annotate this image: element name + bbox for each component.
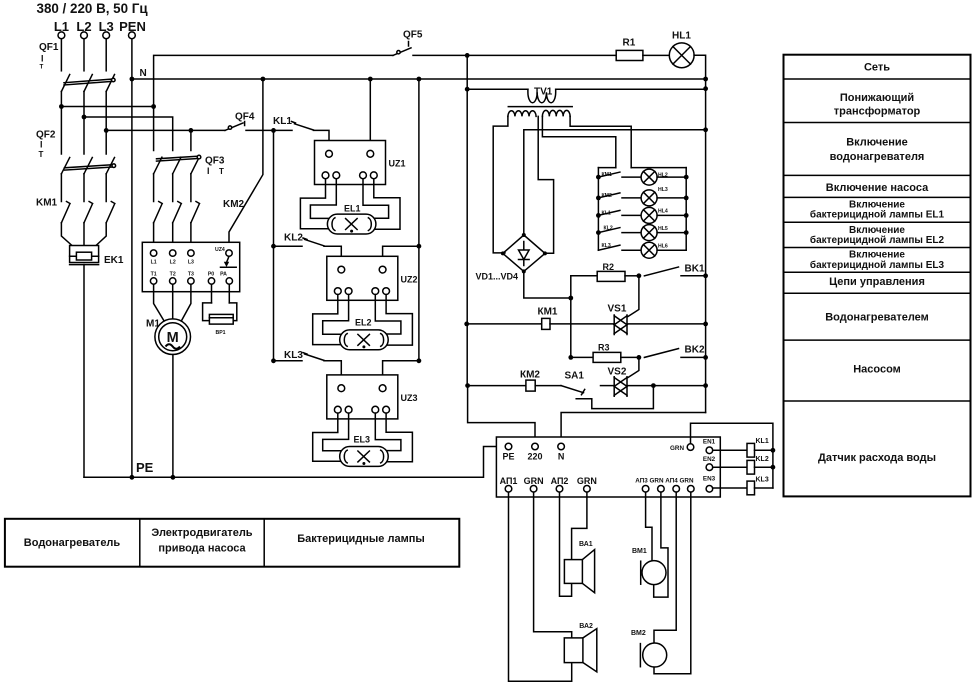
svg-text:KL1: KL1 [273,116,292,127]
wire R2 to VS1 gate [628,276,639,317]
junction KM2 row right [703,383,708,388]
wire P0 to BP1 [211,284,213,303]
junction KL2 row left [271,244,276,249]
contactor KM1 main contacts [36,198,115,223]
junction KL3 row left [271,358,276,363]
terminal box of pump unit [142,242,239,291]
bottom terminals АП3 GRN АП4 GRN [635,478,694,493]
wire UZ1 pin1 loop [300,179,329,229]
wire UZ1 right to N [369,79,371,150]
resistor R1 [616,37,643,60]
microphone BM2 [631,630,667,667]
svg-text:QF5: QF5 [403,30,423,41]
ballast UZ2 [327,256,418,300]
svg-text:KM2: KM2 [223,199,245,210]
svg-text:Т3: Т3 [188,272,194,278]
wire UZ3 right up and to bus [383,361,419,385]
terminal EN3 [703,475,716,492]
wire UZ2 pin4 loop [386,295,412,346]
terminal L1 [54,19,69,39]
svg-text:Включение: Включение [846,137,908,149]
wire T3 to motor [181,284,191,322]
junction KL3 row right [417,358,422,363]
SECTION: control box speakers [496,423,775,681]
svg-text:бактерицидной лампы EL1: бактерицидной лампы EL1 [810,209,945,221]
wire secondary left end to bridge [493,116,508,253]
wire UZ feed bus [273,130,275,360]
svg-text:EN1: EN1 [703,439,716,446]
SECTION: control rows [464,262,708,443]
ballast UZ1 [315,141,406,185]
wire QF5 to R1 [413,54,616,56]
svg-text:KL3: KL3 [284,350,303,361]
SECTION: bottom table [5,519,459,567]
svg-text:ВМ2: ВМ2 [631,630,646,637]
svg-text:KL1: KL1 [756,438,769,445]
junction KM2 row left [465,383,470,388]
wire GRN to BA1 [572,492,587,559]
wire QF1 out L2 [83,92,85,155]
terminal L3 [99,19,114,39]
ballast UZ3 [327,375,418,419]
wire bus L3 to QF4 [106,129,225,131]
svg-text:Бактерицидные лампы: Бактерицидные лампы [297,533,425,545]
terminal EN1 [703,439,716,454]
contactor coil KM1 [467,307,615,330]
svg-text:GRN: GRN [524,476,544,486]
svg-text:Т: Т [40,64,44,71]
wire EN3 to KL3 [713,487,747,489]
relay coil KL3 [747,477,769,495]
svg-text:KL2: KL2 [284,233,303,244]
breaker QF2 [36,130,116,174]
wire 220 feed [468,386,535,444]
wire KM1 to EK1 converge [61,223,72,246]
terminal L2 [76,19,91,39]
breaker QF3 [154,155,225,176]
junction KM1 row right [703,322,708,327]
svg-text:L2: L2 [170,260,176,266]
wire KL3 to GRN bus [755,487,773,489]
svg-text:QF2: QF2 [36,130,56,141]
wire PEN drop [131,39,133,478]
svg-text:Р0: Р0 [208,272,214,278]
wire bus L1 to pump branch [61,106,153,108]
wire secondary right end to lamp group [570,116,631,167]
breaker QF5 [393,30,423,56]
wire PE bus [84,447,505,478]
lamp EL1 [327,204,376,235]
wire GRN to BM1 [654,492,668,597]
svg-text:VS2: VS2 [608,367,627,378]
svg-text:Т: Т [39,150,44,159]
resistor R3 row [571,343,642,363]
sensor BP1 [203,303,237,336]
wire UZ1 pin3 loop [363,179,389,219]
svg-text:РЕ: РЕ [502,452,514,462]
svg-text:SA1: SA1 [565,371,585,382]
wire QF3 out drops [154,174,191,202]
breaker QF4 [225,112,255,131]
svg-text:N: N [140,68,147,79]
svg-text:KM1: KM1 [36,198,58,209]
svg-text:HL6: HL6 [658,244,668,250]
svg-text:Датчик расхода воды: Датчик расхода воды [818,452,936,464]
svg-text:Т: Т [219,167,224,176]
svg-text:R1: R1 [623,37,636,48]
wire L1 drop to QF1 [60,39,62,71]
terminal EN2 [703,456,716,471]
wire lamp left bus [597,168,599,251]
wire pump phase drops [154,107,191,151]
wire QF4 to KL1 [246,129,292,131]
svg-text:220: 220 [527,452,542,462]
wire UZ3 pin3 loop [375,413,401,451]
svg-text:EL3: EL3 [354,435,371,445]
switch BK1 [644,264,708,279]
wire L2 drop to QF1 [83,39,85,71]
svg-text:HL5: HL5 [658,226,668,232]
svg-text:EL2: EL2 [355,318,372,328]
svg-text:UZ3: UZ3 [401,393,418,403]
wire R1 to HL1 [643,54,669,56]
switch BK2 [644,345,708,360]
junction QF5 node [465,53,470,58]
wire left control bus [466,89,468,386]
wire QF2 out drops [61,174,106,202]
relay coil KL1 [747,438,769,457]
contactor coil KM2 [468,370,561,392]
svg-text:АП1: АП1 [500,476,518,486]
wire UZ3 pin4 loop [386,413,412,462]
svg-text:GRN: GRN [670,445,684,452]
svg-text:380 / 220 В, 50 Гц: 380 / 220 В, 50 Гц [37,1,149,16]
svg-text:R3: R3 [598,343,610,353]
wire bus L2 to pump branch [84,117,173,151]
relay contact KL1 [273,116,314,130]
svg-text:EK1: EK1 [104,255,124,266]
svg-text:GRN: GRN [577,476,597,486]
junction UZ feed bus top [271,128,276,133]
wire UZ2 pin3 loop [375,295,401,335]
svg-text:UZ2: UZ2 [401,275,418,285]
svg-text:BK1: BK1 [685,264,705,275]
svg-text:KL2: KL2 [756,456,769,463]
wire T1 to motor [154,284,165,322]
svg-text:BK2: BK2 [685,345,705,356]
relay coil KL2 [747,456,769,474]
svg-text:Электродвигатель: Электродвигатель [151,527,252,539]
svg-text:KL3: KL3 [756,477,769,484]
wire KL3 to UZ3 [324,361,341,385]
wire UZ2 pin2 loop [323,295,349,335]
wire lamp right bus [685,168,687,251]
wire KL1 to GRN bus [755,449,773,451]
indicator lamp group frame [598,167,686,169]
row KM2/HL3 [596,187,689,206]
svg-text:Т1: Т1 [151,272,157,278]
svg-text:привода насоса: привода насоса [158,543,246,555]
wire L3 drop to QF1 [105,39,107,71]
svg-text:Понижающий: Понижающий [840,92,914,104]
junction right bus TV1 [703,86,708,91]
svg-text:EL1: EL1 [344,204,361,214]
svg-text:Водонагреватель: Водонагреватель [24,537,121,549]
wire UZ3 pin2 loop [323,413,349,451]
svg-text:КМ2: КМ2 [520,370,540,381]
svg-text:HL4: HL4 [658,209,668,215]
junction KM1 row left [464,322,469,327]
svg-text:UZ4: UZ4 [215,247,225,253]
SECTION: motor branch [142,77,265,478]
svg-text:QF1: QF1 [39,42,59,53]
svg-text:ВА2: ВА2 [579,623,593,630]
wire QF5 node down to TV1 [466,55,468,89]
svg-text:N: N [558,452,565,462]
wire UZ3 pin1 loop [313,413,342,461]
svg-text:Сеть: Сеть [864,62,890,74]
wire EN2 to KL2 [713,466,747,468]
wire N drop bus right of UZ [418,79,420,361]
relay contact KL2 [274,233,325,247]
wire UZ1 pin2 loop [310,179,336,219]
bottom terminals АП1 GRN АП2 GRN [500,476,597,492]
wire secondary inner right to lamp group [542,116,615,167]
svg-text:L1: L1 [151,260,157,266]
ground symbol UZ4 [221,256,237,267]
wire AP3 to BM1 [646,492,652,561]
transformer TV1 secondary left [508,111,536,117]
terminal PEN [119,19,146,39]
svg-text:EN3: EN3 [703,475,716,482]
svg-text:ВМ1: ВМ1 [632,548,647,555]
svg-text:водонагревателя: водонагревателя [830,151,925,163]
contactor KM2 main contacts [154,199,245,223]
row KL2/HL5 [596,225,689,241]
wire riser to QF5 [154,55,393,106]
wire secondary inner left to bridge right [538,116,553,253]
SECTION: heater branch [36,130,124,478]
transformer TV1 core [508,106,572,108]
speaker BA1 [564,541,594,593]
wire AP4 to BM2 [654,492,676,643]
svg-text:I: I [41,54,44,64]
wire DC rail vertical [570,276,572,358]
wire KM2 to terminal box [154,223,191,249]
terminal 220 [527,443,542,461]
junction PEN-N [130,77,135,82]
svg-text:UZ1: UZ1 [389,159,406,169]
svg-text:I: I [40,140,43,150]
switch SA1 [561,371,653,409]
wire bridge top to right bus [524,130,706,235]
junction SA1 bypass [651,383,656,388]
thyristor VS1 [608,304,706,335]
terminal N [558,443,565,461]
junction motor-PE [171,475,176,480]
svg-text:АП3: АП3 [635,478,648,485]
svg-text:КМ1: КМ1 [538,307,558,318]
svg-text:I: I [207,166,210,176]
speaker BA2 [564,623,597,672]
svg-text:бактерицидной лампы EL2: бактерицидной лампы EL2 [810,234,945,246]
wire QF1 out L3 [105,92,107,155]
SECTION: right table [784,55,971,497]
svg-text:РА: РА [220,272,227,278]
svg-text:HL3: HL3 [658,187,668,193]
controller unit box [496,437,720,497]
svg-text:VS1: VS1 [608,304,627,315]
lamp HL1 [669,31,694,68]
wire bridge bottom to DC rail [524,271,571,298]
svg-text:Т2: Т2 [170,272,176,278]
svg-text:ВР1: ВР1 [215,330,225,336]
wire KL1 to UZ1 [314,130,330,150]
svg-text:R2: R2 [603,262,615,272]
wire N bus [132,78,706,80]
microphone BM1 [632,548,666,585]
lamp EL3 [340,435,389,467]
wire N to UZ4 [229,79,263,250]
svg-text:GRN: GRN [680,478,694,485]
lamp EL2 [340,318,389,350]
svg-text:EN2: EN2 [703,456,716,463]
wire KL2 to UZ2 [324,246,341,266]
thyristor VS2 [601,367,706,397]
svg-text:Цепи управления: Цепи управления [829,276,925,288]
svg-text:QF3: QF3 [205,156,225,167]
wire KL2 to GRN bus [755,466,773,468]
svg-text:Водонагревателем: Водонагревателем [825,312,929,324]
junction TV1 left feed [465,87,470,92]
SECTION: incoming supply [37,1,708,480]
breaker QF1 [39,42,115,92]
svg-text:VD1...VD4: VD1...VD4 [476,271,519,281]
wire EK1 to PE [83,265,85,478]
svg-text:L3: L3 [188,260,194,266]
svg-text:бактерицидной лампы EL3: бактерицидной лампы EL3 [810,259,945,271]
svg-text:HL1: HL1 [672,31,691,42]
transformer TV1 secondary right [542,110,570,116]
svg-text:GRN: GRN [650,478,664,485]
wire UZ2 right up and to bus [383,246,419,266]
relay contact KL3 [274,350,325,361]
wire HL1 to right bus [694,55,706,412]
wire GRN to BA2 [534,492,572,638]
rectifier VD1...VD4 [476,233,547,281]
wire motor to PE [172,355,174,478]
wire PA to BP1 [228,284,230,303]
row KL3/HL6 [598,242,686,258]
svg-text:трансформатор: трансформатор [834,106,921,118]
terminal PE [502,443,514,461]
heater EK1 [70,246,124,267]
wire T2 to motor [172,284,174,319]
terminal GRN top [670,444,694,452]
svg-text:PE: PE [136,460,154,475]
row KM1/HL2 [596,169,689,185]
wire QF1 out L1 [60,92,62,155]
wire N feed to box [561,413,706,444]
SECTION: UZ/EL lamps [225,77,421,467]
wire UZ2 pin1 loop [313,295,342,345]
junction right bus N [703,77,708,82]
wire R3 to VS2 gate [628,357,639,377]
wire AP1 to BA2 [509,492,572,681]
wire GRN to BM2 [654,492,691,674]
svg-text:ВА1: ВА1 [579,541,593,548]
svg-text:Насосом: Насосом [853,364,901,376]
wire UZ1 pin4 loop [374,179,400,230]
motor M1 [146,319,191,355]
SECTION: TV1 bridge indicators [465,55,708,386]
wire AP2 to BA1 [560,492,572,596]
wire GRN riser [691,423,773,488]
transformer TV1 primary [467,87,705,103]
junction KL2 row right [417,244,422,249]
row KL1/HL4 [596,207,689,223]
junction PEN-PE [130,475,135,480]
resistor R2 row [571,262,642,281]
svg-text:АП2: АП2 [551,476,569,486]
svg-text:АП4: АП4 [665,478,678,485]
svg-text:Включение насоса: Включение насоса [826,182,929,194]
wire EN1 to KL1 [713,449,747,451]
